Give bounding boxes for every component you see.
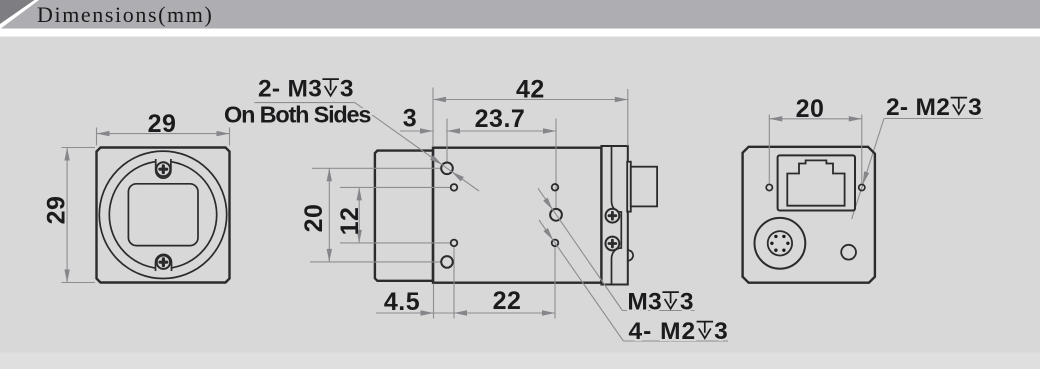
leader underline 2-M3 label (254, 102, 354, 104)
side connector flange (627, 162, 631, 212)
leader line 4-M2 to bottom small hole (539, 220, 623, 341)
back M2 hole right (859, 184, 865, 190)
back power connector inner circle (768, 231, 792, 255)
svg-text:29: 29 (148, 110, 177, 138)
svg-text:3: 3 (403, 105, 417, 133)
depth symbol in 2-M2 label (951, 98, 968, 115)
front view body square (97, 148, 230, 283)
side back plate screw 2 (606, 237, 620, 251)
side 4.5 dimension line (376, 312, 454, 314)
side back plate screw 1 (606, 209, 620, 223)
front lens mount inner circle (109, 161, 216, 268)
svg-text:4- M2: 4- M2 (629, 318, 697, 345)
svg-text:22: 22 (493, 287, 522, 315)
svg-text:3: 3 (714, 318, 728, 345)
svg-text:2- M2: 2- M2 (886, 94, 950, 121)
leader line M3 to middle big hole (538, 188, 622, 310)
leader line 2-M3 to top-left hole (355, 103, 479, 191)
svg-text:42: 42 (516, 76, 545, 104)
side 42 dimension line (433, 99, 628, 101)
svg-text:4.5: 4.5 (384, 288, 420, 316)
side connector bump semicircle (628, 250, 633, 261)
back power connector outer circle (755, 218, 806, 269)
side 3 dimension tail line (400, 130, 433, 132)
back 20 extension lines (769, 115, 862, 185)
depth symbol in 4-M2 label (697, 322, 714, 339)
back 20 dimension line (769, 118, 862, 120)
side 23.7 arrows (447, 128, 460, 133)
svg-text:On Both Sides: On Both Sides (224, 102, 371, 128)
front 29 top arrows (97, 131, 110, 136)
side hole M3 bottom-left big (441, 256, 453, 268)
leader underline M3 label (622, 310, 694, 312)
back view body square (743, 147, 875, 283)
svg-text:20: 20 (300, 204, 328, 233)
header bar (0, 0, 1040, 29)
front 29 top extension lines (97, 128, 230, 146)
leader underline 4-M2 label (623, 340, 728, 342)
side view main body (433, 148, 601, 283)
side 12 arrows (357, 187, 362, 200)
front 29 left extension lines (62, 148, 96, 283)
back 20 arrows (769, 116, 782, 121)
side bottom extension lines (434, 246, 556, 318)
side back plate recess contour (612, 146, 622, 285)
side 42 extension lines (433, 88, 628, 148)
side hole M2 bottom-left small (451, 240, 458, 247)
side connector box (631, 167, 657, 207)
side 23.7 extension lines (447, 119, 556, 209)
depth symbol in 2-M3 label (322, 79, 339, 96)
bottom lighter strip (0, 353, 1040, 370)
svg-text:23.7: 23.7 (475, 105, 526, 133)
side 23.7 dimension line (447, 130, 556, 132)
svg-text:Dimensions(mm): Dimensions(mm) (37, 2, 213, 27)
svg-text:29: 29 (43, 196, 71, 225)
svg-text:3: 3 (968, 94, 982, 121)
svg-text:3: 3 (680, 289, 694, 316)
leader line 2-M2 to back right hole (852, 119, 884, 219)
side hole M2 bottom-middle small (552, 240, 559, 247)
side view back plate (601, 146, 627, 285)
svg-text:2- M3: 2- M3 (258, 76, 322, 103)
front top screw (156, 162, 170, 176)
side 12 extension lines (340, 187, 451, 243)
svg-text:20: 20 (796, 95, 825, 123)
front bottom screw pocket (156, 254, 172, 271)
header dark corner piece (0, 0, 35, 24)
side 20 extension lines (310, 168, 441, 262)
front 29 top dimension line (97, 133, 230, 135)
front 29 left arrows (64, 148, 69, 161)
front lens mount outer circle (99, 151, 226, 278)
side 20 dimension line (328, 168, 330, 262)
side hole M3 middle big (550, 209, 562, 221)
side 22 dimension line (454, 312, 555, 314)
leader arrowheads (430, 155, 442, 165)
side 3 arrow (420, 128, 433, 133)
side view lens barrel (375, 151, 433, 281)
side hole M3 top-left big (441, 163, 453, 175)
side 20 arrows (327, 168, 332, 181)
leader underline 2-M2 label (back view) (884, 118, 983, 120)
back power connector pins (770, 235, 789, 252)
header white slash (0, 0, 39, 29)
side 12 dimension line (358, 187, 360, 243)
front 29 left dimension line (66, 148, 68, 283)
side hole M2 top-middle small (552, 184, 559, 191)
back RJ45 jack outer rect (778, 155, 855, 210)
side hole M2 top-left small (451, 184, 458, 191)
front bottom screw (157, 256, 170, 269)
side 22 arrows (454, 310, 467, 315)
front sensor window rounded rect (128, 184, 198, 246)
front top screw pocket (156, 159, 171, 178)
back LED small circle (841, 245, 856, 260)
svg-text:M3: M3 (627, 289, 662, 316)
depth symbol in M3 label (662, 292, 679, 309)
back RJ45 jack inner profile (787, 160, 844, 205)
svg-text:12: 12 (336, 207, 364, 236)
side 42 arrows (433, 97, 446, 102)
svg-text:3: 3 (340, 76, 354, 103)
back M2 hole left (766, 184, 772, 190)
side 4.5 arrow (421, 310, 434, 315)
